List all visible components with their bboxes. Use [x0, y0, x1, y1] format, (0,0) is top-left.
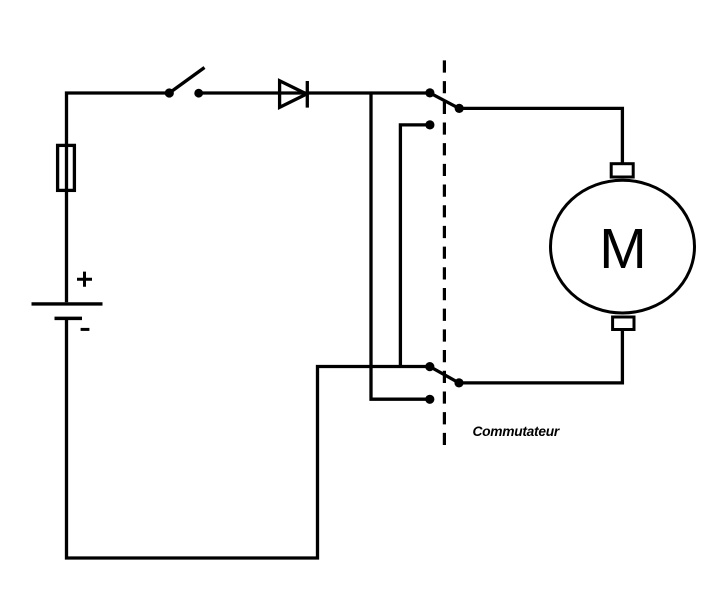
svg-text:M: M [599, 217, 646, 281]
svg-text:Commutateur: Commutateur [473, 424, 560, 439]
